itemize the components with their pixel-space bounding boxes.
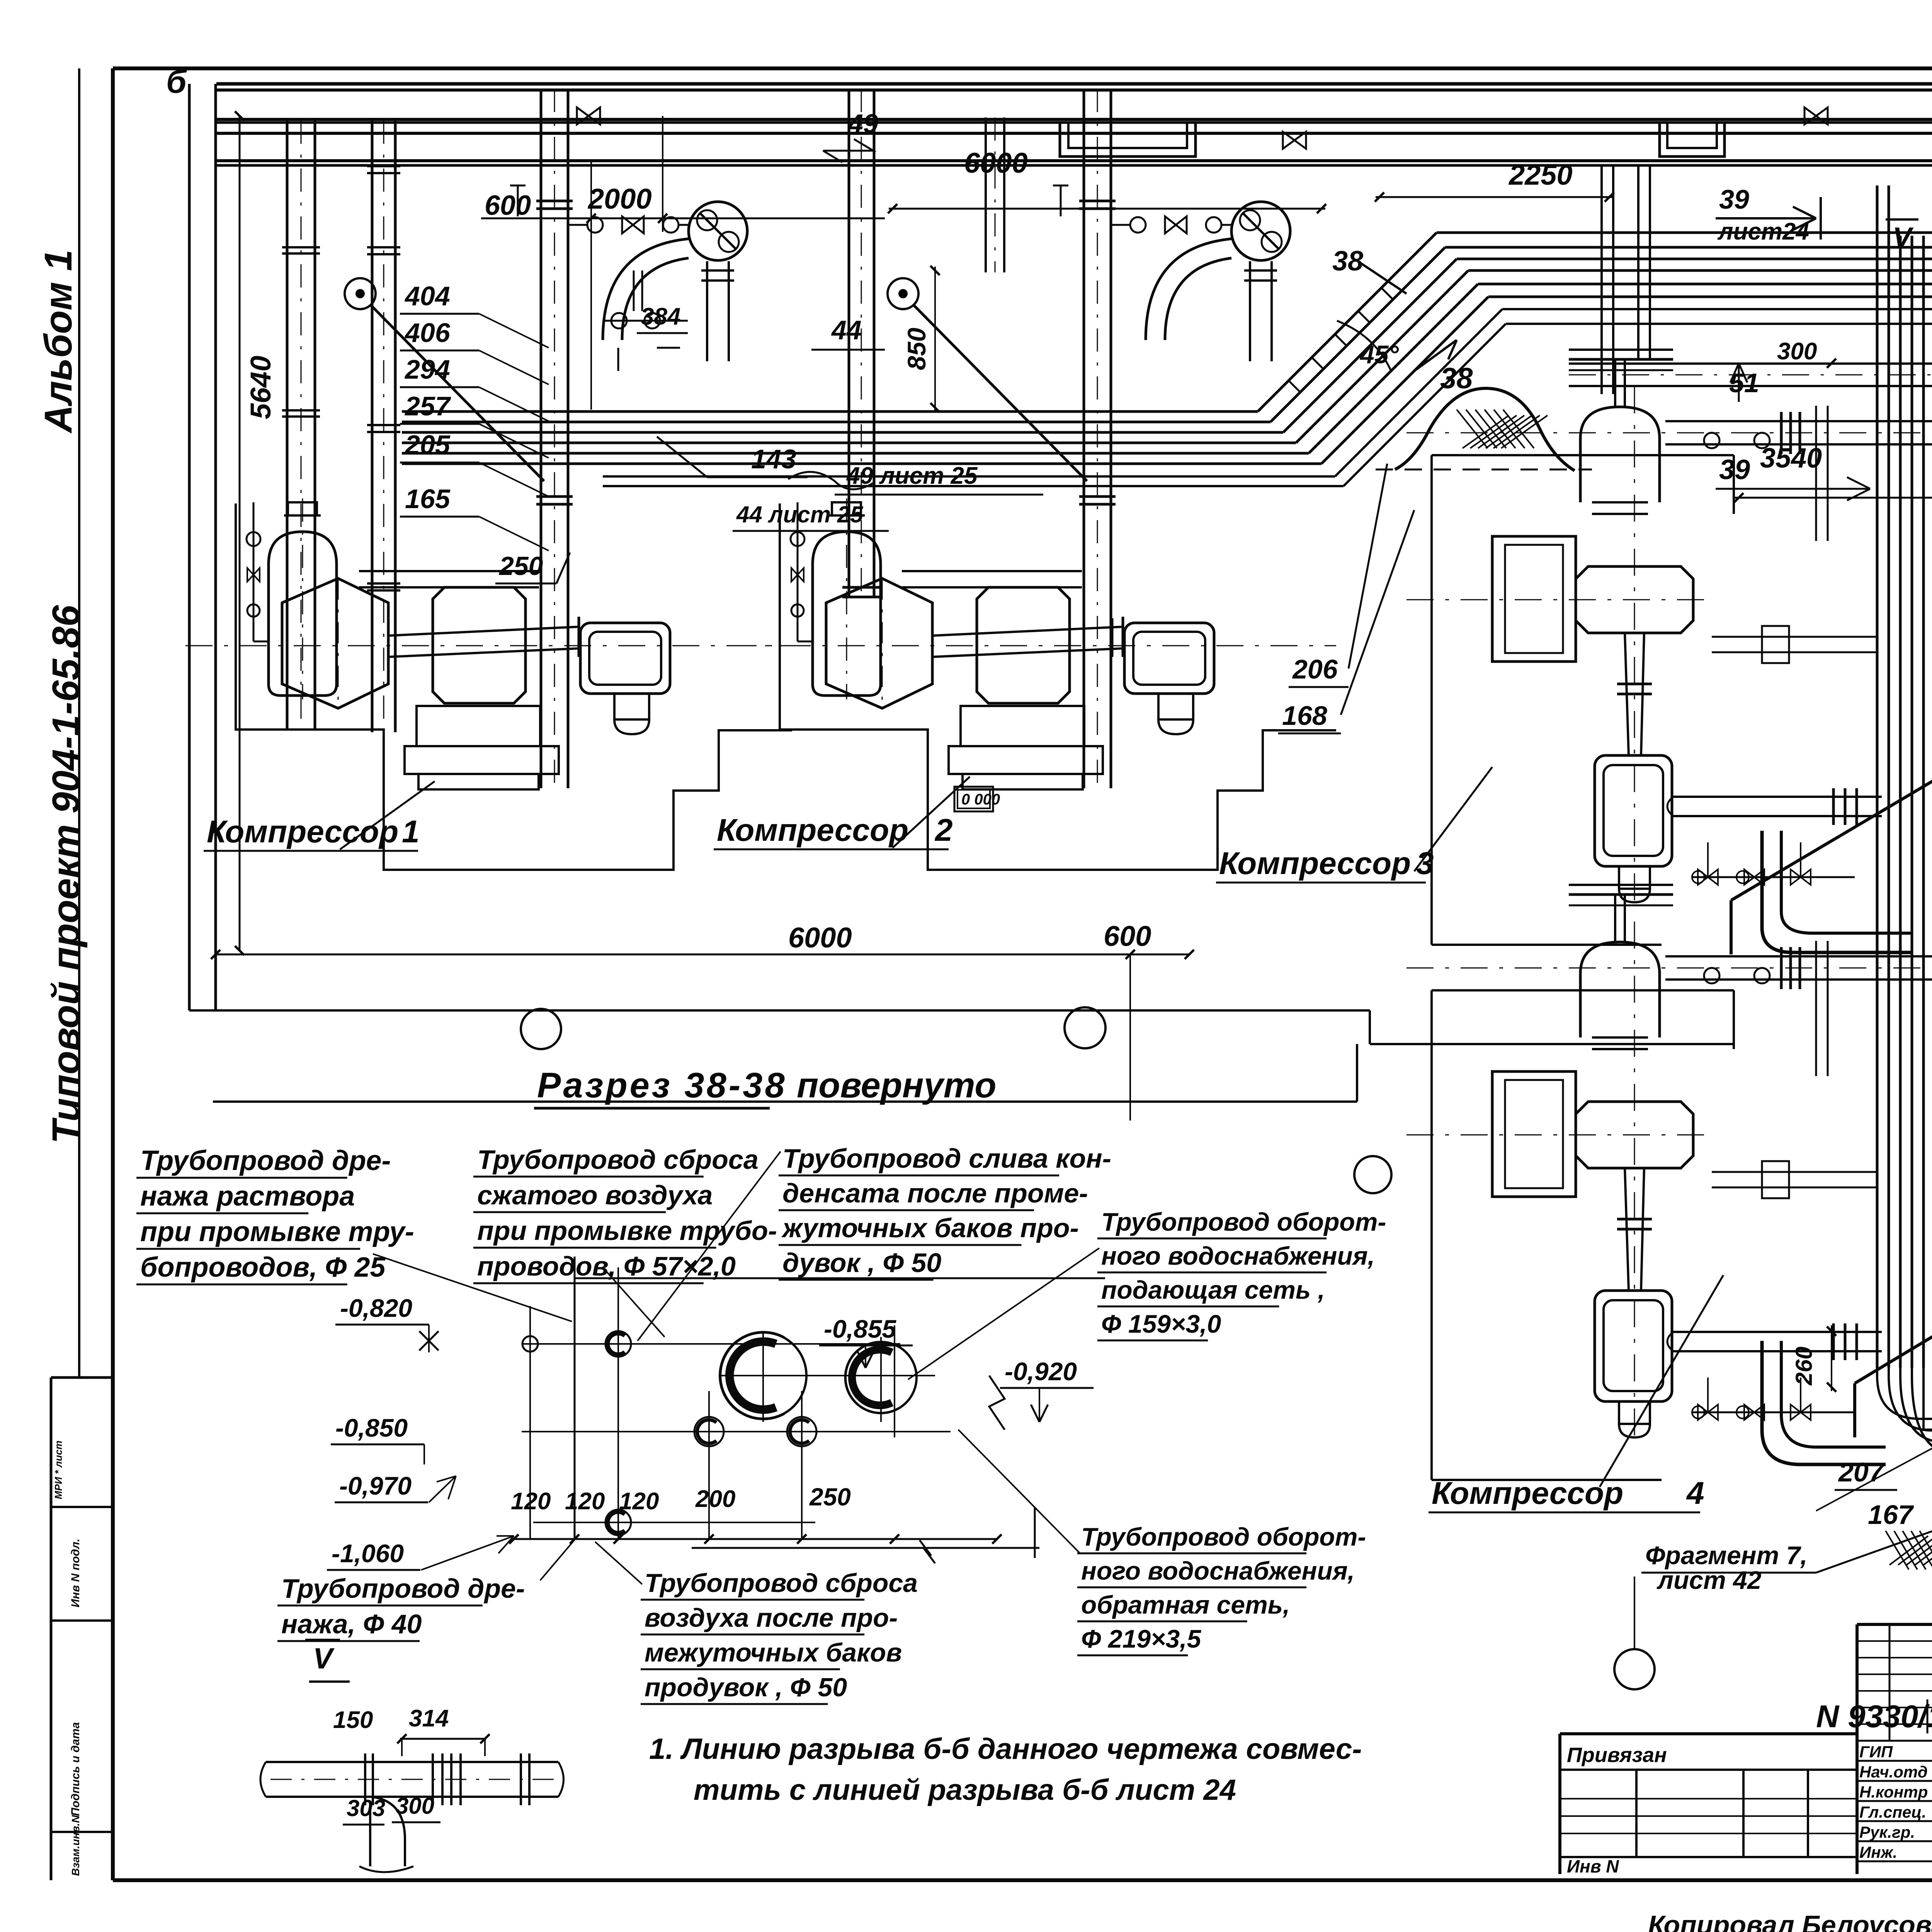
svg-text:6000: 6000 <box>964 147 1028 179</box>
svg-text:3: 3 <box>1416 846 1434 881</box>
svg-text:206: 206 <box>1292 654 1338 684</box>
svg-text:Компрессор: Компрессор <box>1219 846 1411 881</box>
svg-text:3540: 3540 <box>1760 443 1822 474</box>
svg-text:250: 250 <box>498 551 543 581</box>
svg-text:Трубопровод дре-: Трубопровод дре- <box>281 1573 525 1604</box>
svg-text:бопроводов, Ф 25: бопроводов, Ф 25 <box>140 1252 386 1283</box>
svg-text:нажа, Ф 40: нажа, Ф 40 <box>281 1609 422 1639</box>
svg-text:6000: 6000 <box>788 922 852 954</box>
svg-text:143: 143 <box>751 444 796 474</box>
svg-text:1. Линию разрыва б-б да: 1. Линию разрыва б-б данного чертежа сов… <box>649 1733 1362 1765</box>
svg-text:V: V <box>1893 221 1914 253</box>
svg-text:Нач.отд: Нач.отд <box>1859 1763 1928 1781</box>
svg-text:повернуто: повернуто <box>797 1066 997 1105</box>
svg-text:обратная сеть,: обратная сеть, <box>1081 1590 1290 1619</box>
svg-text:44 лист 25: 44 лист 25 <box>736 502 864 527</box>
svg-text:-0,920: -0,920 <box>1005 1357 1077 1386</box>
svg-text:б: б <box>166 63 187 100</box>
svg-text:120: 120 <box>619 1488 659 1515</box>
svg-text:лист24: лист24 <box>1717 218 1809 245</box>
svg-text:5640: 5640 <box>245 355 277 419</box>
svg-text:Трубопровод сброса: Трубопровод сброса <box>645 1568 918 1598</box>
svg-text:Подпись и дата: Подпись и дата <box>69 1722 82 1816</box>
svg-text:257: 257 <box>404 391 451 421</box>
svg-text:Фрагмент 7,: Фрагмент 7, <box>1645 1541 1808 1570</box>
svg-text:38: 38 <box>1440 362 1473 395</box>
svg-text:Инв N подл.: Инв N подл. <box>69 1539 82 1607</box>
svg-text:207: 207 <box>1838 1457 1885 1487</box>
svg-text:Ф 219×3,5: Ф 219×3,5 <box>1081 1624 1202 1653</box>
svg-text:подающая сеть ,: подающая сеть , <box>1101 1276 1325 1304</box>
svg-text:Копировал Белоусова: Копировал Белоусова <box>1648 1910 1932 1932</box>
svg-text:2250: 2250 <box>1508 159 1573 191</box>
svg-text:Инв N: Инв N <box>1567 1856 1619 1876</box>
svg-text:Альбом 1: Альбом 1 <box>37 250 80 434</box>
svg-text:Типовой проект 904-1-65.86: Типовой проект 904-1-65.86 <box>44 605 88 1144</box>
svg-text:ГИП: ГИП <box>1859 1743 1893 1761</box>
svg-text:при промывке трубо-: при промывке трубо- <box>477 1216 777 1246</box>
svg-text:Трубопровод оборот-: Трубопровод оборот- <box>1101 1207 1386 1236</box>
svg-text:300: 300 <box>396 1793 434 1819</box>
svg-text:N 9330/1: N 9330/1 <box>1816 1699 1932 1734</box>
svg-text:38: 38 <box>1332 246 1363 277</box>
svg-text:300: 300 <box>1777 338 1817 365</box>
svg-text:49: 49 <box>847 109 878 139</box>
svg-text:Рук.гр.: Рук.гр. <box>1859 1823 1915 1841</box>
svg-text:Компрессор: Компрессор <box>1432 1476 1623 1511</box>
svg-text:1: 1 <box>402 814 420 849</box>
svg-text:Инж.: Инж. <box>1859 1843 1897 1861</box>
svg-text:39: 39 <box>1719 184 1749 214</box>
svg-text:294: 294 <box>404 354 450 384</box>
svg-text:120: 120 <box>565 1488 605 1515</box>
svg-text:-0,850: -0,850 <box>335 1413 408 1442</box>
svg-text:продувок , Ф 50: продувок , Ф 50 <box>645 1673 847 1702</box>
svg-text:денсата после проме-: денсата после проме- <box>782 1178 1088 1208</box>
svg-text:при промывке тру-: при промывке тру- <box>140 1216 414 1247</box>
svg-text:Трубопровод слива кон-: Трубопровод слива кон- <box>782 1143 1111 1173</box>
svg-text:Гл.спец.: Гл.спец. <box>1859 1803 1926 1821</box>
svg-text:Привязан: Привязан <box>1567 1743 1667 1767</box>
svg-text:200: 200 <box>695 1486 735 1512</box>
svg-text:165: 165 <box>405 484 451 514</box>
svg-text:51: 51 <box>1729 368 1759 398</box>
svg-text:2: 2 <box>934 813 953 848</box>
svg-text:Трубопровод оборот-: Трубопровод оборот- <box>1081 1522 1366 1551</box>
svg-text:воздуха после про-: воздуха после про- <box>645 1603 898 1633</box>
svg-text:406: 406 <box>404 318 451 348</box>
svg-text:лист 42: лист 42 <box>1656 1566 1762 1594</box>
svg-text:Н.контр: Н.контр <box>1859 1783 1928 1801</box>
svg-text:Компрессор: Компрессор <box>717 813 908 848</box>
svg-text:Трубопровод сброса: Трубопровод сброса <box>477 1145 759 1175</box>
svg-text:600: 600 <box>1104 920 1151 952</box>
svg-text:120: 120 <box>511 1488 551 1515</box>
svg-text:тить с линией разрыва б-: тить с линией разрыва б-б лист 24 <box>694 1774 1236 1806</box>
svg-text:384: 384 <box>641 303 680 330</box>
svg-text:ного водоснабжения,: ного водоснабжения, <box>1101 1242 1375 1270</box>
svg-text:314: 314 <box>409 1705 449 1732</box>
svg-text:нажа раствора: нажа раствора <box>140 1181 355 1212</box>
svg-text:-0,970: -0,970 <box>339 1471 412 1500</box>
svg-text:проводов, Ф 57×2,0: проводов, Ф 57×2,0 <box>477 1251 736 1281</box>
svg-text:сжатого воздуха: сжатого воздуха <box>477 1180 713 1210</box>
svg-text:303: 303 <box>347 1795 385 1821</box>
svg-text:Разрез 38-38: Разрез 38-38 <box>537 1066 787 1105</box>
svg-text:Компрессор: Компрессор <box>207 814 398 849</box>
svg-text:жуточных баков про-: жуточных баков про- <box>781 1213 1079 1243</box>
svg-text:850: 850 <box>902 328 931 370</box>
svg-text:-0,820: -0,820 <box>340 1294 412 1322</box>
svg-text:39: 39 <box>1719 454 1750 485</box>
svg-text:4: 4 <box>1686 1476 1704 1511</box>
svg-text:V: V <box>313 1642 335 1675</box>
svg-text:44: 44 <box>831 315 862 345</box>
svg-text:дувок , Ф 50: дувок , Ф 50 <box>782 1248 941 1278</box>
svg-text:250: 250 <box>809 1483 851 1511</box>
svg-text:49 лист 25: 49 лист 25 <box>846 463 978 489</box>
svg-text:600: 600 <box>485 190 531 221</box>
svg-text:-1,060: -1,060 <box>332 1539 404 1568</box>
svg-text:45°: 45° <box>1359 340 1399 369</box>
svg-text:ного водоснабжения,: ного водоснабжения, <box>1081 1556 1355 1585</box>
svg-text:Трубопровод дре-: Трубопровод дре- <box>140 1145 391 1176</box>
svg-text:2000: 2000 <box>587 183 652 215</box>
svg-text:168: 168 <box>1282 701 1327 731</box>
svg-text:260: 260 <box>1791 1347 1817 1386</box>
svg-text:Взам.инв.N: Взам.инв.N <box>70 1815 82 1876</box>
svg-text:-0,855: -0,855 <box>824 1315 896 1343</box>
svg-text:205: 205 <box>404 430 451 460</box>
svg-text:167: 167 <box>1868 1500 1914 1530</box>
svg-text:150: 150 <box>333 1707 373 1733</box>
svg-text:404: 404 <box>404 281 450 311</box>
svg-text:межуточных баков: межуточных баков <box>645 1638 902 1667</box>
svg-text:Ф 159×3,0: Ф 159×3,0 <box>1101 1310 1221 1338</box>
svg-text:МРИ * лист: МРИ * лист <box>53 1440 64 1499</box>
svg-text:0 000: 0 000 <box>961 791 1000 808</box>
